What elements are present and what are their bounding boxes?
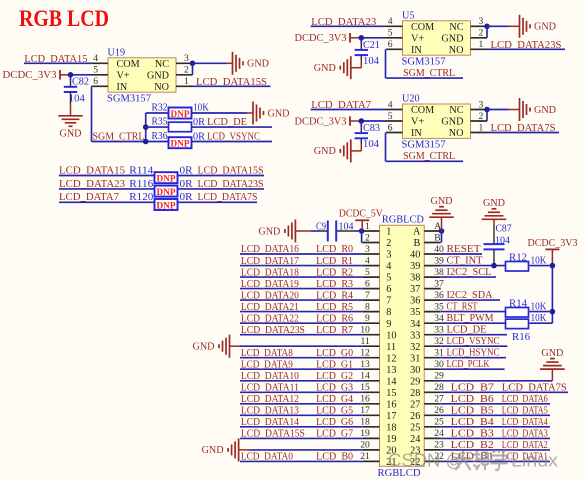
svg-text:39: 39 [410, 261, 420, 272]
svg-text:LCD_R1: LCD_R1 [316, 255, 353, 267]
svg-text:1: 1 [365, 221, 370, 232]
svg-text:LCD_G7: LCD_G7 [316, 428, 354, 440]
svg-text:GND: GND [147, 70, 169, 81]
svg-text:I2C2_SDA: I2C2_SDA [447, 289, 493, 301]
svg-text:LCD_G5: LCD_G5 [316, 405, 353, 417]
svg-text:2: 2 [386, 238, 391, 249]
svg-text:28: 28 [434, 382, 444, 393]
svg-text:13: 13 [386, 365, 396, 376]
svg-text:R116: R116 [129, 179, 153, 190]
svg-text:R12: R12 [509, 253, 527, 264]
svg-text:39: 39 [434, 255, 444, 266]
svg-text:40: 40 [410, 250, 420, 261]
svg-text:LCD_DATA20: LCD_DATA20 [241, 289, 299, 301]
svg-text:32: 32 [434, 336, 444, 347]
svg-text:B: B [414, 238, 421, 249]
svg-text:104: 104 [363, 56, 379, 67]
svg-text:3: 3 [184, 53, 189, 64]
svg-text:10K: 10K [531, 255, 548, 266]
svg-text:LCD_DATA18: LCD_DATA18 [241, 266, 299, 278]
svg-text:30: 30 [410, 365, 420, 376]
svg-text:SGM_CTRL: SGM_CTRL [403, 150, 455, 162]
svg-text:A: A [413, 227, 421, 238]
svg-text:CT_RST: CT_RST [447, 301, 478, 313]
svg-text:LCD_B7: LCD_B7 [451, 381, 495, 393]
svg-text:12: 12 [386, 353, 396, 364]
svg-text:6: 6 [386, 284, 391, 295]
svg-text:C87: C87 [496, 224, 512, 235]
svg-text:GND: GND [258, 226, 280, 237]
svg-text:CSDN @: CSDN @ [388, 450, 464, 471]
svg-text:27: 27 [434, 394, 444, 405]
svg-text:DNP: DNP [171, 109, 190, 120]
svg-text:LCD_DATA16: LCD_DATA16 [241, 243, 300, 255]
svg-text:34: 34 [434, 313, 444, 324]
svg-text:LCD_DATA17: LCD_DATA17 [241, 255, 300, 267]
svg-text:LCD_G6: LCD_G6 [316, 416, 354, 428]
svg-text:4: 4 [93, 53, 98, 64]
svg-text:19: 19 [360, 428, 370, 439]
svg-text:7: 7 [386, 296, 391, 307]
svg-text:GND: GND [483, 198, 505, 209]
svg-text:35: 35 [410, 307, 420, 318]
svg-text:33: 33 [410, 330, 420, 341]
svg-text:IN: IN [117, 82, 128, 93]
svg-text:3: 3 [479, 16, 484, 27]
svg-text:RGBLCD: RGBLCD [382, 215, 424, 226]
svg-text:6: 6 [93, 76, 98, 87]
svg-text:LCD_R2: LCD_R2 [316, 266, 353, 278]
svg-text:40: 40 [434, 244, 444, 255]
svg-text:LCD_G2: LCD_G2 [316, 370, 353, 382]
svg-text:21: 21 [360, 451, 370, 462]
svg-text:COM: COM [411, 22, 434, 33]
svg-text:38: 38 [410, 273, 420, 284]
svg-text:31: 31 [410, 353, 420, 364]
svg-text:DCDC_3V3: DCDC_3V3 [295, 33, 347, 44]
svg-text:0R: 0R [193, 131, 205, 142]
svg-text:LCD_DE: LCD_DE [207, 116, 247, 128]
svg-text:DCDC_5V: DCDC_5V [339, 209, 384, 220]
svg-text:LCD_DATA21: LCD_DATA21 [241, 301, 299, 313]
svg-text:LCD_R4: LCD_R4 [316, 289, 354, 301]
svg-text:6: 6 [365, 278, 370, 289]
svg-text:25: 25 [434, 417, 444, 428]
svg-text:3: 3 [365, 244, 370, 255]
svg-text:SGM3157: SGM3157 [402, 57, 446, 68]
svg-text:LCD_DATA5: LCD_DATA5 [502, 404, 548, 416]
svg-text:LCD_VSYNC: LCD_VSYNC [447, 335, 500, 347]
svg-text:R114: R114 [129, 165, 153, 176]
svg-text:DCDC_3V3: DCDC_3V3 [3, 70, 57, 81]
svg-text:27: 27 [410, 399, 420, 410]
svg-text:LCD_R0: LCD_R0 [316, 243, 353, 255]
svg-text:2: 2 [184, 65, 189, 76]
svg-text:B: B [434, 232, 440, 243]
svg-text:LCD_DATA23: LCD_DATA23 [59, 178, 125, 190]
svg-text:V+: V+ [411, 117, 424, 128]
svg-text:10K: 10K [193, 102, 210, 113]
svg-text:4: 4 [365, 255, 370, 266]
svg-text:GND: GND [541, 348, 563, 359]
svg-text:4: 4 [388, 16, 393, 27]
svg-text:LCD_DATA10: LCD_DATA10 [241, 370, 299, 382]
svg-text:4: 4 [388, 99, 393, 110]
svg-text:5: 5 [365, 267, 370, 278]
svg-text:Linux: Linux [511, 450, 559, 471]
svg-text:C82: C82 [72, 76, 89, 87]
svg-text:LCD_B3: LCD_B3 [451, 427, 494, 439]
svg-text:COM: COM [117, 59, 140, 70]
svg-text:LCD_DATA7S: LCD_DATA7S [198, 191, 258, 203]
svg-text:10: 10 [360, 325, 370, 336]
svg-text:RGB LCD: RGB LCD [19, 6, 109, 31]
svg-text:LCD_DATA0: LCD_DATA0 [241, 451, 293, 463]
svg-text:8: 8 [386, 307, 391, 318]
svg-text:NO: NO [449, 45, 464, 56]
svg-text:C83: C83 [363, 123, 380, 134]
svg-text:104: 104 [495, 235, 510, 246]
svg-text:13: 13 [360, 359, 370, 370]
svg-text:RESET: RESET [447, 243, 481, 255]
svg-text:U5: U5 [402, 10, 414, 21]
svg-text:GND: GND [441, 117, 463, 128]
svg-text:GND: GND [314, 63, 336, 74]
svg-text:LCD_DATA9: LCD_DATA9 [241, 358, 293, 370]
svg-text:LCD_DATA3: LCD_DATA3 [502, 427, 548, 439]
svg-text:IN: IN [411, 45, 422, 56]
svg-text:17: 17 [386, 411, 396, 422]
svg-text:GND: GND [202, 445, 224, 456]
svg-text:C21: C21 [363, 40, 380, 51]
svg-text:COM: COM [411, 105, 434, 116]
svg-text:NC: NC [155, 59, 169, 70]
svg-text:0R: 0R [180, 165, 193, 176]
svg-text:DNP: DNP [157, 187, 176, 198]
svg-text:10: 10 [386, 330, 396, 341]
svg-text:GND: GND [534, 105, 556, 116]
svg-text:18: 18 [360, 417, 370, 428]
svg-text:LCD_DATA23S: LCD_DATA23S [241, 324, 305, 336]
svg-text:GND: GND [247, 59, 269, 70]
svg-text:LCD_DATA22: LCD_DATA22 [241, 312, 299, 324]
svg-text:DCDC_3V3: DCDC_3V3 [528, 238, 578, 249]
svg-text:R32: R32 [152, 102, 168, 113]
svg-text:LCD_DATA14: LCD_DATA14 [241, 416, 300, 428]
svg-text:NC: NC [449, 22, 463, 33]
svg-text:LCD_R5: LCD_R5 [316, 301, 353, 313]
svg-text:LCD_DATA23S: LCD_DATA23S [198, 178, 264, 190]
svg-text:R120: R120 [129, 192, 153, 203]
svg-text:LCD_VSYNC: LCD_VSYNC [207, 130, 260, 142]
svg-text:R16: R16 [512, 332, 530, 343]
svg-text:11: 11 [361, 336, 370, 347]
svg-text:LCD_PCLK: LCD_PCLK [447, 358, 490, 370]
svg-text:31: 31 [434, 348, 444, 359]
svg-text:LCD_DATA8: LCD_DATA8 [241, 347, 293, 359]
svg-text:LCD_DATA15S: LCD_DATA15S [241, 428, 305, 440]
svg-text:LCD_R3: LCD_R3 [316, 278, 353, 290]
svg-text:24: 24 [434, 428, 444, 439]
svg-text:14: 14 [386, 376, 396, 387]
svg-text:15: 15 [386, 388, 396, 399]
svg-text:29: 29 [434, 371, 444, 382]
svg-text:LCD_DATA7S: LCD_DATA7S [502, 381, 567, 393]
svg-text:SGM3157: SGM3157 [107, 94, 151, 105]
svg-text:1: 1 [386, 227, 391, 238]
svg-text:28: 28 [410, 388, 420, 399]
svg-text:LCD_B6: LCD_B6 [451, 393, 495, 405]
svg-text:17: 17 [360, 405, 370, 416]
svg-text:SGM_CTRL: SGM_CTRL [93, 130, 145, 142]
svg-text:LCD_DATA15S: LCD_DATA15S [198, 164, 264, 176]
svg-text:14: 14 [360, 371, 370, 382]
svg-text:LCD_DATA13: LCD_DATA13 [241, 405, 299, 417]
svg-text:GND: GND [193, 342, 215, 353]
svg-text:5: 5 [93, 65, 98, 76]
svg-text:33: 33 [434, 325, 444, 336]
svg-text:R36: R36 [152, 131, 168, 142]
svg-text:LCD_G4: LCD_G4 [316, 393, 354, 405]
svg-text:19: 19 [386, 434, 396, 445]
svg-text:104: 104 [69, 94, 85, 105]
svg-text:16: 16 [386, 399, 396, 410]
svg-text:9: 9 [365, 313, 370, 324]
svg-text:LCD_DATA15: LCD_DATA15 [59, 164, 125, 176]
svg-text:0R: 0R [180, 192, 193, 203]
svg-text:BLT_PWM: BLT_PWM [447, 312, 494, 324]
svg-text:15: 15 [360, 382, 370, 393]
svg-text:SGM_CTRL: SGM_CTRL [403, 67, 455, 79]
svg-text:30: 30 [434, 359, 444, 370]
svg-text:12: 12 [360, 348, 370, 359]
svg-text:5: 5 [388, 28, 393, 39]
svg-text:10K: 10K [531, 301, 548, 312]
svg-text:18: 18 [386, 422, 396, 433]
svg-text:NC: NC [449, 105, 463, 116]
svg-text:LCD_G0: LCD_G0 [316, 347, 353, 359]
svg-text:SGM3157: SGM3157 [402, 140, 446, 151]
svg-text:20: 20 [360, 440, 370, 451]
svg-text:LCD_DATA11: LCD_DATA11 [241, 382, 299, 394]
svg-text:36: 36 [434, 290, 444, 301]
svg-text:GND: GND [60, 129, 82, 140]
svg-text:LCD_DATA7: LCD_DATA7 [59, 191, 120, 203]
svg-text:NO: NO [154, 82, 169, 93]
svg-text:1: 1 [184, 76, 189, 87]
svg-text:U19: U19 [108, 47, 126, 58]
svg-text:2: 2 [365, 232, 370, 243]
svg-text:35: 35 [434, 301, 444, 312]
svg-text:34: 34 [410, 319, 420, 330]
svg-text:IN: IN [411, 128, 422, 139]
svg-text:1: 1 [479, 122, 484, 133]
svg-text:32: 32 [410, 342, 420, 353]
svg-text:NO: NO [449, 128, 464, 139]
svg-text:8: 8 [365, 301, 370, 312]
svg-text:24: 24 [410, 434, 420, 445]
svg-text:LCD_B0: LCD_B0 [316, 451, 353, 463]
svg-text:2: 2 [479, 111, 484, 122]
svg-text:2: 2 [479, 28, 484, 39]
svg-text:104: 104 [339, 222, 354, 233]
svg-text:R35: R35 [152, 117, 168, 128]
svg-text:R14: R14 [509, 299, 527, 310]
svg-text:7: 7 [365, 290, 370, 301]
svg-text:V+: V+ [117, 70, 130, 81]
svg-text:LCD_HSYNC: LCD_HSYNC [447, 347, 500, 359]
svg-text:LCD_DATA12: LCD_DATA12 [241, 393, 299, 405]
svg-text:U20: U20 [402, 94, 420, 105]
svg-text:5: 5 [386, 273, 391, 284]
svg-text:29: 29 [410, 376, 420, 387]
svg-text:DNP: DNP [171, 139, 190, 150]
svg-text:37: 37 [410, 284, 420, 295]
svg-text:LCD_DATA4: LCD_DATA4 [502, 416, 548, 428]
svg-text:25: 25 [410, 422, 420, 433]
svg-text:GND: GND [268, 108, 290, 119]
svg-text:CT_INT: CT_INT [447, 255, 483, 267]
svg-text:3: 3 [479, 99, 484, 110]
svg-text:LCD_B5: LCD_B5 [451, 404, 494, 416]
svg-text:DCDC_3V3: DCDC_3V3 [295, 116, 347, 127]
svg-text:LCD_G3: LCD_G3 [316, 382, 353, 394]
svg-text:9: 9 [386, 319, 391, 330]
svg-text:11: 11 [386, 342, 396, 353]
svg-text:LCD_G1: LCD_G1 [316, 358, 353, 370]
svg-text:37: 37 [434, 278, 444, 289]
svg-text:LCD_DATA19: LCD_DATA19 [241, 278, 299, 290]
svg-text:GND: GND [441, 33, 463, 44]
svg-text:1: 1 [479, 39, 484, 50]
svg-text:DNP: DNP [157, 174, 176, 185]
svg-text:LCD_R7: LCD_R7 [316, 324, 354, 336]
svg-text:6: 6 [388, 122, 393, 133]
svg-text:10K: 10K [531, 313, 548, 324]
svg-text:GND: GND [431, 196, 453, 207]
svg-text:V+: V+ [411, 33, 424, 44]
svg-text:0R: 0R [193, 117, 205, 128]
svg-text:I2C2_SCL: I2C2_SCL [447, 266, 492, 278]
svg-text:4: 4 [386, 261, 391, 272]
svg-text:5: 5 [388, 111, 393, 122]
svg-text:LCD_DATA6: LCD_DATA6 [502, 393, 548, 405]
svg-text:0R: 0R [180, 179, 193, 190]
svg-text:6: 6 [388, 39, 393, 50]
svg-text:3: 3 [386, 250, 391, 261]
svg-text:LCD_DE: LCD_DE [447, 324, 487, 336]
svg-text:LCD_B4: LCD_B4 [451, 416, 495, 428]
svg-text:36: 36 [410, 296, 420, 307]
svg-text:104: 104 [363, 139, 379, 150]
svg-text:DNP: DNP [157, 200, 176, 211]
svg-text:16: 16 [360, 394, 370, 405]
svg-text:38: 38 [434, 267, 444, 278]
svg-text:26: 26 [434, 405, 444, 416]
svg-text:LCD_R6: LCD_R6 [316, 312, 354, 324]
svg-text:GND: GND [314, 146, 336, 157]
svg-text:26: 26 [410, 411, 420, 422]
svg-text:GND: GND [534, 22, 556, 33]
